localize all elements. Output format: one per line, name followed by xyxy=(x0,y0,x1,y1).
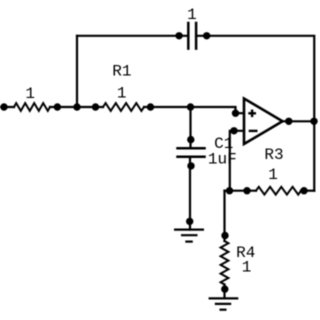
op-amp U1 triangle xyxy=(244,99,283,145)
wire C1 branch upper xyxy=(189,107,191,147)
op-amp U1 plus sign xyxy=(248,110,256,118)
resistor R4 zigzag xyxy=(221,241,229,285)
node C1 branch junction dot xyxy=(187,103,194,110)
svg-text:1: 1 xyxy=(187,6,197,24)
node R3 left pin dot xyxy=(243,187,250,194)
ground symbol at C1 xyxy=(174,230,204,242)
node C2 left pin dot xyxy=(175,32,182,39)
node input terminal dot xyxy=(0,103,7,110)
node R1 left pin dot xyxy=(92,103,99,110)
node feedback junction dot xyxy=(73,103,80,110)
wire feedback top rail right of capacitor xyxy=(197,36,314,122)
node C1 ground dot xyxy=(186,218,193,225)
node input resistor right pin dot xyxy=(54,103,61,110)
wire op-amp output xyxy=(282,120,315,122)
op-amp U1 minus sign xyxy=(249,130,258,132)
wire C1 branch lower xyxy=(189,158,191,230)
capacitor C2 left plate xyxy=(187,23,190,49)
node op-amp plus pin dot xyxy=(232,110,239,117)
svg-text:R3: R3 xyxy=(264,146,283,164)
resistor R1 zigzag xyxy=(103,103,144,111)
node R4 ground dot xyxy=(221,285,228,292)
wire R1 to op-amp plus corner xyxy=(144,107,244,113)
capacitor C1 top plate xyxy=(178,147,205,150)
wire feedback vertical left xyxy=(76,36,78,107)
wire feedback top rail left of capacitor xyxy=(77,35,187,37)
svg-text:R1: R1 xyxy=(112,62,131,80)
capacitor C1 bottom plate xyxy=(178,155,205,158)
svg-text:1: 1 xyxy=(268,166,278,184)
wire R4 to ground stub xyxy=(223,285,225,299)
wire R3 rail left xyxy=(225,190,257,192)
wire minus input stub xyxy=(230,131,244,191)
node C1 top pin dot xyxy=(187,136,194,143)
svg-text:1: 1 xyxy=(25,85,35,103)
node op-amp output pin dot xyxy=(285,118,292,125)
node R4 top pin dot xyxy=(221,232,228,239)
wire R4 vertical upper xyxy=(223,191,225,241)
ground symbol at R4 xyxy=(209,298,239,309)
node R1 right pin dot xyxy=(147,103,154,110)
wire right vertical output to R3 xyxy=(313,121,315,190)
node R3 left junction dot xyxy=(226,187,233,194)
wire R3 rail right xyxy=(301,190,314,192)
wire input rail left segment xyxy=(1,106,15,108)
capacitor C2 right plate xyxy=(195,23,198,49)
svg-text:1uF: 1uF xyxy=(208,151,237,169)
node output feedback junction dot xyxy=(310,118,317,125)
wire between input resistor and R1 xyxy=(50,106,103,108)
resistor R2 value 1 (input resistor) xyxy=(14,103,50,111)
node C2 right pin dot xyxy=(203,32,210,39)
svg-text:1: 1 xyxy=(117,84,127,102)
node op-amp minus pin dot xyxy=(230,127,237,134)
svg-text:1: 1 xyxy=(242,258,252,276)
node C1 bottom pin dot xyxy=(187,162,194,169)
node R3 right pin dot xyxy=(300,187,307,194)
resistor R3 zigzag xyxy=(256,187,301,195)
